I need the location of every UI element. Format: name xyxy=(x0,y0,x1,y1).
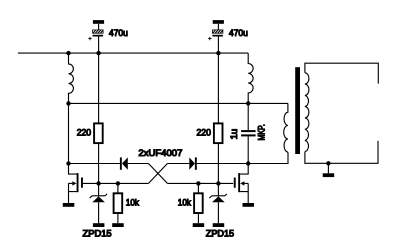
capacitor C2 470u electrolytic xyxy=(208,30,223,53)
label R1 value 220 xyxy=(77,128,91,138)
wire 10k left top xyxy=(117,183,119,193)
transformer TR1 secondary winding xyxy=(305,73,309,152)
wire right column C2 to R2 xyxy=(217,53,219,123)
node gate right zener junction xyxy=(216,181,220,185)
wire top supply rail xyxy=(18,52,248,54)
capacitor C1 470u electrolytic xyxy=(88,30,103,53)
wire gate rail right xyxy=(167,182,233,184)
svg-text:470u: 470u xyxy=(109,28,128,38)
wire 10k right top xyxy=(197,183,199,193)
diode D1 UF4007 cathode-left xyxy=(120,157,149,169)
svg-text:ZPD15: ZPD15 xyxy=(206,229,234,239)
node secondary ground junction xyxy=(326,161,330,165)
wire secondary ground stub xyxy=(327,163,329,173)
inductor L1 left choke xyxy=(69,53,74,103)
svg-text:220: 220 xyxy=(197,128,211,138)
svg-text:10k: 10k xyxy=(126,197,140,207)
ground Q1 source xyxy=(63,203,75,207)
svg-text:470u: 470u xyxy=(229,28,248,38)
resistor R1 220 xyxy=(94,123,103,143)
resistor R2 220 xyxy=(214,123,223,143)
wire node A rail xyxy=(69,102,288,104)
label 2xUF4007 xyxy=(138,148,182,158)
transformer TR1 primary winding xyxy=(284,103,288,152)
wire 10k right bottom xyxy=(197,213,199,223)
wire 1u cap top lead xyxy=(247,103,249,130)
inductor L2 right choke xyxy=(248,53,253,103)
ground Z2 xyxy=(213,223,225,227)
node gate left 10k junction xyxy=(116,181,120,185)
wire gate rail left xyxy=(83,182,149,184)
node gate left zener junction xyxy=(96,181,100,185)
transistor Q1 left MOSFET xyxy=(69,164,83,203)
ground Q2 source xyxy=(243,203,255,207)
svg-text:2xUF4007: 2xUF4007 xyxy=(138,148,182,158)
ground Z1 xyxy=(93,223,105,227)
label Z2 ZPD15 xyxy=(206,229,234,239)
wire R1 bottom to gate rail xyxy=(98,143,100,183)
svg-text:MKP.: MKP. xyxy=(257,124,267,140)
node top C1 tap xyxy=(96,51,100,55)
node top C2 tap xyxy=(216,51,220,55)
resistor R4 10k xyxy=(194,193,203,213)
transformer TR1 core xyxy=(295,67,300,154)
wire node B to primary bottom xyxy=(248,152,288,163)
ground above C1 xyxy=(93,20,104,30)
wire secondary top lead xyxy=(305,63,378,83)
wire node B rail middle xyxy=(167,163,189,165)
wire left drain vertical xyxy=(68,103,70,163)
wire secondary bottom lead xyxy=(305,141,378,163)
label C2 value 470u xyxy=(229,28,248,38)
wire cross diagonal up xyxy=(149,164,168,184)
node gate right 10k junction xyxy=(196,181,200,185)
label C3 value 1u rotated xyxy=(229,129,239,140)
wire R2 bottom to gate rail xyxy=(217,143,219,183)
label R4 value 10k xyxy=(178,197,192,207)
label R3 value 10k xyxy=(126,197,140,207)
svg-text:220: 220 xyxy=(77,128,91,138)
ground R3 xyxy=(112,223,124,227)
diode D2 UF4007 cathode-right xyxy=(189,157,248,169)
diode Z1 zener ZPD15 xyxy=(90,183,107,223)
svg-text:ZPD15: ZPD15 xyxy=(83,229,112,239)
wire left column C1 to R1 xyxy=(98,53,100,123)
label C3 name MKP rotated xyxy=(257,124,267,140)
label C1 value 470u xyxy=(109,28,128,38)
label Z1 ZPD15 xyxy=(83,229,112,239)
wire node B rail left xyxy=(69,163,120,165)
wire cross diagonal down xyxy=(149,164,168,184)
node A right junction xyxy=(246,101,250,105)
svg-text:10k: 10k xyxy=(178,197,192,207)
ground R4 xyxy=(193,223,205,227)
node B left junction xyxy=(66,161,70,165)
transistor Q2 right MOSFET xyxy=(234,164,248,203)
svg-text:1u: 1u xyxy=(229,129,239,140)
node B right junction xyxy=(246,161,250,165)
ground secondary xyxy=(323,173,335,177)
node top-left choke tap xyxy=(66,51,70,55)
diode Z2 zener ZPD15 xyxy=(209,183,226,223)
ground above C2 xyxy=(213,20,224,30)
label R2 value 220 xyxy=(197,128,211,138)
capacitor C3 1u MKP xyxy=(241,130,256,163)
resistor R3 10k xyxy=(114,193,123,213)
node A left junction xyxy=(66,101,70,105)
wire 10k left bottom xyxy=(117,213,119,223)
